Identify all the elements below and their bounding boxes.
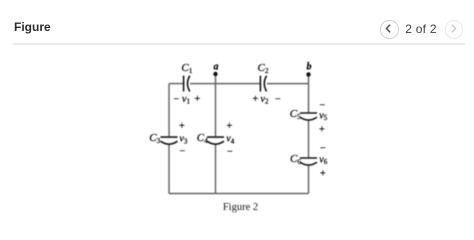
wire right middle (C5 to C6) [308, 120, 310, 158]
wire right lower (C6 to bottom corner) [308, 165, 310, 194]
svg-text:C3: C3 [149, 132, 160, 145]
svg-text:+: + [320, 169, 326, 180]
svg-text:+: + [227, 121, 233, 132]
polarity labels v3 (+ above, - below) [179, 121, 188, 157]
svg-text:v2: v2 [261, 94, 269, 106]
polarity labels v5 (- above, + below) [319, 100, 328, 136]
svg-text:C5: C5 [290, 108, 301, 121]
wire left upper (corner to C3) [168, 84, 170, 137]
wire top-right segment (C2 to corner b) [267, 83, 309, 85]
capacitor C1 plates [184, 76, 190, 92]
svg-text:−: − [227, 146, 233, 157]
node b (dot) [306, 72, 310, 76]
wire left lower (C3 to bottom corner) [168, 144, 170, 194]
capacitor C3 plates [161, 137, 178, 144]
polarity labels v2 (+ v2 -) [253, 94, 282, 106]
svg-text:C2: C2 [258, 62, 269, 75]
pager next button (disabled) [445, 20, 464, 39]
svg-text:+: + [195, 94, 201, 105]
svg-text:v3: v3 [179, 134, 187, 146]
capacitor C4 plates [207, 137, 224, 144]
polarity labels v6 (- above, + below) [319, 143, 327, 180]
svg-text:−: − [320, 143, 326, 154]
svg-text:Figure 2: Figure 2 [223, 202, 258, 213]
node a (dot) [213, 72, 217, 76]
svg-text:b: b [307, 62, 312, 73]
pager text "2 of 2" [404, 22, 438, 36]
svg-text:−: − [180, 146, 186, 157]
capacitor C6 plates [300, 158, 317, 165]
polarity labels v1 (- v1 +) [174, 94, 201, 106]
svg-text:−: − [174, 94, 180, 105]
wire middle lower (C4 to bottom wire) [215, 144, 217, 194]
svg-text:v6: v6 [319, 154, 327, 166]
svg-text:+: + [319, 125, 325, 136]
svg-text:v5: v5 [319, 110, 327, 122]
pager prev button [380, 20, 399, 39]
svg-text:a: a [214, 62, 219, 73]
svg-text:−: − [275, 94, 281, 105]
wire top-middle segment (C1 through node a to C2) [190, 83, 260, 85]
svg-text:+: + [179, 121, 185, 132]
svg-text:+: + [253, 94, 259, 105]
svg-text:v1: v1 [182, 94, 190, 106]
wire middle upper (node a to C4) [215, 74, 217, 136]
svg-text:C4: C4 [197, 132, 208, 145]
wire right upper (node b to C5) [308, 75, 310, 113]
svg-text:C6: C6 [290, 153, 301, 166]
svg-text:v4: v4 [226, 134, 234, 146]
capacitor C2 plates [260, 76, 266, 92]
divider rule [13, 43, 465, 45]
svg-text:C1: C1 [181, 62, 192, 75]
polarity labels v4 (+ above, - below) [226, 121, 234, 157]
wire top-left segment (corner to C1) [169, 83, 183, 85]
wire bottom segment [169, 193, 309, 195]
capacitor C5 plates [300, 113, 317, 120]
header label "Figure" [14, 20, 51, 34]
